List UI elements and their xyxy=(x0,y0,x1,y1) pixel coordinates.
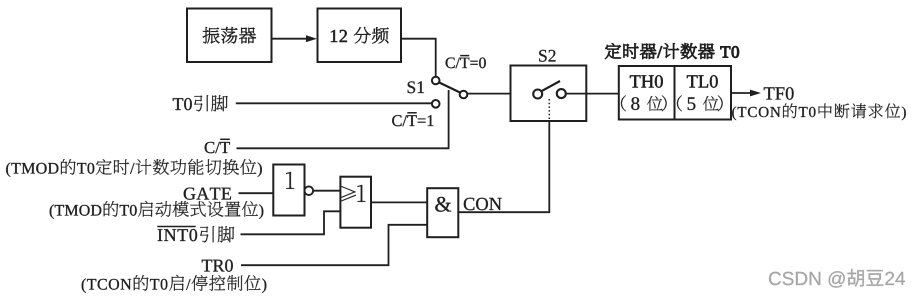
divide-by-12 block 12分频 xyxy=(318,9,402,63)
note TCON的T0启/停控制位 xyxy=(82,275,267,293)
label C/T xyxy=(205,142,230,153)
wire: S1 pole to S2 xyxy=(467,93,510,95)
wire: AND gate output (CON) to S2 control xyxy=(458,121,549,212)
label 振荡器 xyxy=(203,27,256,43)
label CON xyxy=(464,198,502,210)
NOT gate label 1 xyxy=(286,172,294,189)
switch S2 control (dotted) xyxy=(548,99,550,120)
switch S2 left contact xyxy=(533,90,542,99)
oscillator block 振荡器 xyxy=(187,9,272,63)
overline over T of C/T=1 xyxy=(407,112,416,114)
label C/T=0 xyxy=(446,58,486,69)
wire: divider output to S1 upper contact xyxy=(401,39,436,77)
switch S1 lower contact (C/T=1) xyxy=(432,100,440,108)
wire: TR0 to AND gate input xyxy=(241,225,427,265)
OR gate U2 body xyxy=(340,177,371,228)
title 定时器/计数器 T0 xyxy=(605,43,739,59)
switch S1 label xyxy=(408,81,424,93)
label INT0引脚 xyxy=(158,226,235,242)
overline over INT0 xyxy=(157,226,195,228)
wire: GATE to NOT gate input xyxy=(239,192,274,194)
overline over T of C/T=0 xyxy=(460,55,469,57)
label T0引脚 xyxy=(173,95,228,111)
note TMOD的T0启动模式设置位 xyxy=(50,201,264,219)
label TH0 xyxy=(630,75,663,88)
label C/T=1 xyxy=(392,115,433,126)
label （5 位） xyxy=(677,95,723,111)
label TR0 xyxy=(202,260,233,272)
wire: T0 pin to S1 lower contact xyxy=(236,102,432,104)
wire: OR gate output to AND gate input xyxy=(371,201,427,203)
switch S2 label xyxy=(539,50,555,62)
wire: S2 right contact to TH0 xyxy=(566,93,619,95)
wire: INT0 pin to OR gate input xyxy=(241,211,341,234)
note TCON的T0中断请求位 xyxy=(732,104,906,121)
register TH0 box xyxy=(619,66,675,120)
wire: oscillator to divider (arrow) xyxy=(272,35,318,42)
wire: NOT bubble to OR gate input xyxy=(313,190,340,192)
register TL0 box xyxy=(675,66,732,120)
wire: TL0 to TF0 (arrow) xyxy=(731,90,761,97)
label （8 位） xyxy=(621,95,667,111)
NOT gate inversion bubble xyxy=(305,186,314,195)
note TMOD的T0定时/计数功能切换位 xyxy=(6,159,262,177)
switch S2 right contact xyxy=(557,89,566,98)
NOT gate U1 body xyxy=(273,165,304,216)
label GATE xyxy=(184,188,231,200)
label TL0 xyxy=(687,75,718,88)
label 12 分频 xyxy=(331,27,389,43)
AND gate U3 body xyxy=(427,188,458,237)
switch S1 pole node xyxy=(460,91,468,99)
overline over T of C/T xyxy=(220,138,230,140)
switch S2 enclosure box xyxy=(511,66,587,122)
label TF0 xyxy=(764,87,794,100)
switch S1 upper contact (C/T=0) xyxy=(432,77,440,85)
OR gate label ≥1 xyxy=(341,185,365,202)
wire: C/T control to S1 lever xyxy=(237,90,449,148)
switch S1 lever (closed to upper contact) xyxy=(439,82,461,93)
watermark CSDN @胡豆24 xyxy=(769,269,905,288)
switch S2 lever (open) xyxy=(541,81,560,91)
AND gate label & xyxy=(435,197,451,212)
